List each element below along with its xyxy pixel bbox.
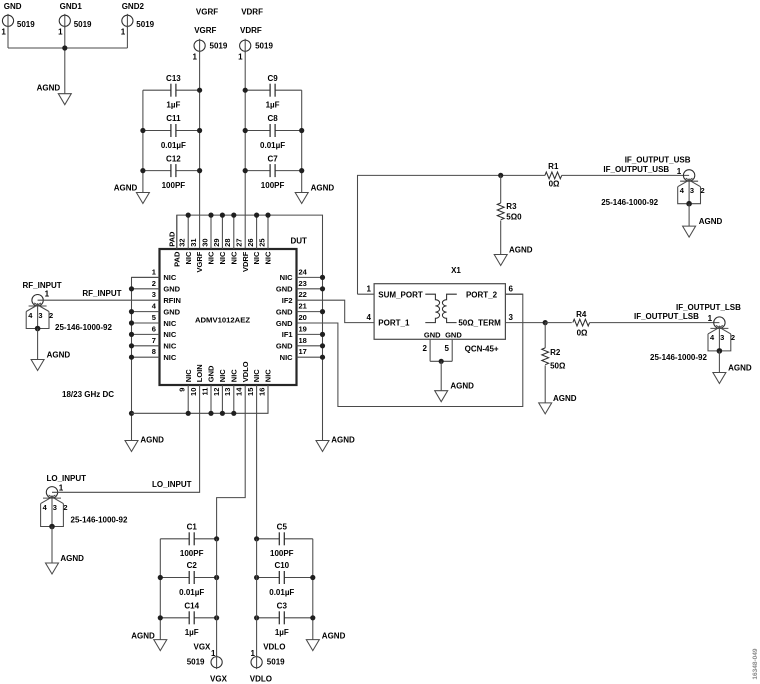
svg-text:NIC: NIC: [280, 273, 294, 282]
svg-text:GND: GND: [207, 365, 216, 382]
X1 GND pins 2 and 5: [423, 339, 453, 361]
svg-text:R4: R4: [576, 310, 587, 319]
capacitor C13: [143, 74, 200, 110]
svg-text:1µF: 1µF: [266, 101, 280, 110]
connector GND1 (turret 5019): [58, 2, 92, 37]
svg-text:AGND: AGND: [553, 394, 577, 403]
svg-text:NIC: NIC: [280, 353, 294, 362]
svg-text:23: 23: [299, 279, 307, 288]
svg-text:AGND: AGND: [322, 632, 346, 641]
svg-text:PORT_2: PORT_2: [466, 290, 498, 299]
svg-text:15: 15: [246, 388, 255, 396]
svg-text:2: 2: [701, 186, 705, 195]
svg-text:C10: C10: [274, 561, 289, 570]
svg-text:NIC: NIC: [252, 251, 261, 265]
junction: [214, 575, 219, 580]
svg-text:NIC: NIC: [218, 251, 227, 265]
svg-text:ADMV1012AEZ: ADMV1012AEZ: [195, 316, 250, 325]
svg-text:7: 7: [152, 336, 156, 345]
wire VDRF vertical to pin 27: [244, 51, 246, 249]
junction bottom bus: [186, 411, 191, 416]
svg-text:RF_INPUT: RF_INPUT: [82, 289, 121, 298]
ground AGND (VDRF bank): [295, 183, 334, 203]
svg-text:SUM_PORT: SUM_PORT: [378, 290, 423, 299]
svg-text:21: 21: [299, 302, 307, 311]
svg-text:NIC: NIC: [207, 251, 216, 265]
svg-text:1: 1: [193, 53, 198, 62]
svg-text:22: 22: [299, 290, 307, 299]
wire LOIN from pin 10: [52, 385, 200, 492]
resistor R4 0 ohm: [573, 310, 590, 337]
wire pin 14 VDLO to VGX bank: [217, 385, 246, 539]
svg-text:6: 6: [509, 284, 514, 293]
junction top bus: [186, 213, 191, 218]
svg-text:PORT_1: PORT_1: [378, 319, 410, 328]
junction: [243, 128, 248, 133]
svg-text:C13: C13: [166, 74, 181, 83]
junction top bus: [254, 213, 259, 218]
junction: [140, 128, 145, 133]
svg-text:AGND: AGND: [509, 245, 533, 254]
wire GND/GND1/GND2 join: [8, 26, 127, 94]
ground AGND (left bus): [125, 436, 164, 452]
svg-text:3: 3: [53, 503, 57, 512]
capacitor C9: [245, 74, 302, 110]
wire RFIN: [38, 299, 160, 301]
junction: [243, 88, 248, 93]
junction: [254, 615, 259, 620]
svg-text:13: 13: [223, 388, 232, 396]
capacitor C5: [257, 523, 313, 559]
wire VGRF bank left rail: [142, 90, 144, 192]
svg-text:VGRF: VGRF: [195, 251, 204, 272]
wire VGRF vertical to pin 31: [199, 51, 201, 249]
svg-text:VDRF: VDRF: [241, 7, 263, 16]
connector VGX (turret 5019): [187, 642, 228, 683]
svg-text:AGND: AGND: [114, 183, 138, 192]
svg-text:C9: C9: [267, 74, 278, 83]
svg-text:27: 27: [235, 238, 244, 246]
svg-text:28: 28: [223, 238, 232, 246]
svg-text:IF_OUTPUT_LSB: IF_OUTPUT_LSB: [676, 303, 741, 312]
svg-text:NIC: NIC: [264, 369, 273, 383]
svg-text:VDLO: VDLO: [241, 361, 250, 382]
svg-text:1: 1: [238, 53, 243, 62]
junction: [310, 615, 315, 620]
IC top pin numbers and names: [168, 231, 273, 273]
svg-text:100PF: 100PF: [261, 181, 285, 190]
junction: [214, 615, 219, 620]
svg-text:0.01µF: 0.01µF: [179, 588, 204, 597]
svg-text:GND: GND: [424, 331, 441, 340]
svg-text:GND: GND: [163, 285, 180, 294]
wire IF2 (pin 22) to X1 PORT_1: [297, 300, 375, 322]
wire R1 to IF_OUTPUT_USB: [562, 174, 689, 176]
svg-text:NIC: NIC: [252, 369, 261, 383]
connector VDRF (turret 5019): [238, 26, 273, 62]
resistor R1 0 ohm: [545, 162, 562, 189]
svg-text:5019: 5019: [74, 20, 92, 29]
svg-text:GND: GND: [4, 2, 22, 11]
svg-text:R2: R2: [550, 348, 561, 357]
junction R3 tap: [498, 173, 503, 178]
capacitor C12: [143, 154, 200, 190]
svg-text:X1: X1: [451, 266, 461, 275]
svg-text:25: 25: [257, 238, 266, 246]
capacitor C10: [257, 561, 313, 597]
svg-text:16348-049: 16348-049: [752, 648, 759, 679]
svg-text:0.01µF: 0.01µF: [161, 141, 186, 150]
svg-text:4: 4: [367, 313, 372, 322]
transformer X1 QCN-45+: [367, 266, 514, 354]
svg-text:AGND: AGND: [37, 83, 61, 92]
svg-text:NIC: NIC: [229, 369, 238, 383]
svg-text:QCN-45+: QCN-45+: [465, 345, 499, 354]
svg-text:AGND: AGND: [450, 382, 474, 391]
svg-text:GND: GND: [276, 285, 293, 294]
svg-text:LOIN: LOIN: [195, 364, 204, 382]
wire VGX bank right rail to connector: [216, 539, 218, 657]
svg-text:3: 3: [690, 186, 694, 195]
connector IF_OUTPUT_LSB 25-146-1000-92: [650, 303, 741, 362]
svg-text:5: 5: [152, 313, 156, 322]
svg-text:9: 9: [178, 388, 187, 392]
wire junction to R4: [545, 322, 572, 324]
capacitor C2: [160, 561, 216, 597]
svg-text:AGND: AGND: [311, 183, 335, 192]
junction: [197, 128, 202, 133]
svg-text:NIC: NIC: [163, 353, 177, 362]
svg-text:18/23 GHz DC: 18/23 GHz DC: [62, 390, 114, 399]
wire R2 to ground: [544, 365, 546, 403]
wire VDLO bank right rail: [312, 539, 314, 640]
svg-text:1: 1: [152, 267, 156, 276]
svg-text:3: 3: [152, 290, 156, 299]
wire bottom ground bus: [132, 385, 269, 413]
svg-text:GND: GND: [276, 319, 293, 328]
svg-text:AGND: AGND: [728, 363, 752, 372]
capacitor C14: [160, 602, 216, 638]
svg-text:C7: C7: [267, 154, 278, 163]
svg-text:VGX: VGX: [210, 675, 228, 684]
svg-text:25-146-1000-92: 25-146-1000-92: [601, 198, 658, 207]
svg-text:IF_OUTPUT_LSB: IF_OUTPUT_LSB: [634, 312, 699, 321]
svg-text:20: 20: [299, 313, 307, 322]
svg-text:25-146-1000-92: 25-146-1000-92: [55, 323, 112, 332]
svg-text:25-146-1000-92: 25-146-1000-92: [650, 353, 707, 362]
svg-text:IF2: IF2: [282, 296, 293, 305]
wire R3 to ground: [500, 221, 502, 255]
svg-text:GND: GND: [276, 307, 293, 316]
svg-text:12: 12: [212, 388, 221, 396]
junction: [158, 575, 163, 580]
svg-text:3: 3: [720, 333, 724, 342]
svg-text:0Ω: 0Ω: [577, 328, 588, 337]
svg-text:50Ω: 50Ω: [550, 362, 566, 371]
wire SUM_PORT to R1: [358, 175, 545, 294]
svg-text:R3: R3: [506, 202, 517, 211]
svg-text:1: 1: [121, 28, 126, 37]
junction X1 ground: [439, 359, 444, 364]
svg-text:VDRF: VDRF: [240, 26, 262, 35]
svg-text:NIC: NIC: [163, 273, 177, 282]
svg-text:AGND: AGND: [60, 554, 84, 563]
svg-text:50Ω_TERM: 50Ω_TERM: [458, 319, 501, 328]
wire top ground bus: [177, 215, 323, 440]
svg-text:3: 3: [509, 313, 514, 322]
junction: [197, 168, 202, 173]
svg-text:1: 1: [677, 167, 682, 176]
svg-text:GND: GND: [445, 331, 462, 340]
svg-text:C1: C1: [187, 523, 198, 532]
svg-text:R1: R1: [548, 162, 559, 171]
svg-text:2: 2: [152, 279, 156, 288]
svg-text:100PF: 100PF: [270, 549, 294, 558]
svg-text:IF_OUTPUT_USB: IF_OUTPUT_USB: [625, 155, 691, 164]
IC bottom pin leads: [188, 385, 268, 413]
svg-text:3: 3: [38, 311, 42, 320]
svg-text:6: 6: [152, 324, 156, 333]
svg-text:AGND: AGND: [699, 217, 723, 226]
svg-text:10: 10: [189, 388, 198, 396]
svg-text:1µF: 1µF: [166, 101, 180, 110]
svg-text:1: 1: [367, 284, 372, 293]
capacitor C7: [245, 154, 302, 190]
connector VGRF (turret 5019): [193, 26, 228, 62]
IC right pin leads: [297, 277, 323, 357]
svg-text:VDLO: VDLO: [250, 675, 272, 684]
svg-text:17: 17: [299, 347, 307, 356]
ground AGND (RF_INPUT): [31, 350, 70, 370]
svg-text:AGND: AGND: [47, 350, 71, 359]
ground AGND (R3): [494, 245, 533, 265]
IC left pin numbers and names: [152, 267, 181, 362]
svg-text:5019: 5019: [187, 657, 205, 666]
junction R2 tap: [543, 320, 548, 325]
svg-text:LO_INPUT: LO_INPUT: [152, 480, 192, 489]
ground AGND (right bus): [316, 436, 355, 452]
svg-text:NIC: NIC: [264, 251, 273, 265]
svg-text:1: 1: [1, 28, 6, 37]
svg-text:5019: 5019: [136, 20, 154, 29]
svg-text:VGRF: VGRF: [194, 26, 216, 35]
svg-text:1µF: 1µF: [185, 628, 199, 637]
svg-text:0Ω: 0Ω: [549, 180, 560, 189]
svg-text:11: 11: [200, 388, 209, 396]
svg-text:18: 18: [299, 336, 307, 345]
svg-text:26: 26: [246, 238, 255, 246]
svg-text:19: 19: [299, 324, 307, 333]
op-amp/IC U1 ADMV1012AEZ (DUT): [160, 237, 308, 385]
junction: [197, 88, 202, 93]
svg-text:C3: C3: [277, 602, 288, 611]
svg-text:100PF: 100PF: [180, 549, 204, 558]
svg-text:NIC: NIC: [184, 369, 193, 383]
junction top bus: [231, 213, 236, 218]
svg-text:GND: GND: [276, 342, 293, 351]
svg-text:1: 1: [708, 314, 713, 323]
junction: [140, 168, 145, 173]
junction top bus: [265, 213, 270, 218]
X1 pin 1 lead: [358, 293, 375, 295]
svg-text:VDLO: VDLO: [263, 642, 285, 651]
resistor R2 50 ohm: [542, 323, 566, 371]
ground AGND (IF_OUTPUT_LSB): [713, 363, 752, 383]
svg-text:AGND: AGND: [331, 436, 355, 445]
junction: [254, 575, 259, 580]
junction: [243, 168, 248, 173]
capacitor C1: [160, 523, 216, 559]
svg-text:C8: C8: [267, 114, 278, 123]
junction: [158, 615, 163, 620]
svg-text:VGX: VGX: [193, 642, 211, 651]
ground AGND (VGRF bank): [114, 183, 150, 203]
svg-text:NIC: NIC: [163, 330, 177, 339]
wire R4 to IF_OUTPUT_LSB: [590, 322, 720, 324]
IC left pin leads: [132, 277, 160, 357]
svg-text:1µF: 1µF: [275, 628, 289, 637]
svg-text:NIC: NIC: [229, 251, 238, 265]
svg-text:PAD: PAD: [168, 231, 177, 247]
svg-text:GND2: GND2: [122, 2, 145, 11]
svg-text:31: 31: [189, 238, 198, 246]
connector LO_INPUT 25-146-1000-92: [41, 474, 128, 529]
connector GND (turret 5019): [1, 2, 35, 37]
svg-text:VDRF: VDRF: [241, 251, 250, 272]
connector VDLO (turret 5019): [250, 642, 286, 683]
svg-text:5Ω0: 5Ω0: [506, 213, 522, 222]
svg-text:14: 14: [235, 387, 244, 396]
junction GND net: [62, 45, 67, 50]
svg-text:2: 2: [49, 311, 53, 320]
svg-text:IF_OUTPUT_USB: IF_OUTPUT_USB: [603, 165, 669, 174]
ground AGND (R2): [539, 394, 577, 414]
junction top bus: [208, 213, 213, 218]
svg-text:NIC: NIC: [218, 369, 227, 383]
svg-text:C12: C12: [166, 154, 181, 163]
svg-text:1: 1: [58, 28, 63, 37]
svg-text:5019: 5019: [17, 20, 35, 29]
svg-text:0.01µF: 0.01µF: [269, 588, 294, 597]
wire LO connector shield to ground: [51, 527, 53, 564]
junction: [299, 168, 304, 173]
svg-text:RF_INPUT: RF_INPUT: [23, 281, 62, 290]
junction: [310, 575, 315, 580]
svg-text:2: 2: [423, 344, 428, 353]
svg-text:5019: 5019: [255, 42, 273, 51]
svg-text:5019: 5019: [210, 42, 228, 51]
svg-text:32: 32: [178, 238, 187, 246]
IC top pin leads: [177, 215, 268, 249]
svg-text:DUT: DUT: [291, 237, 308, 246]
svg-text:24: 24: [299, 267, 308, 276]
svg-text:C14: C14: [184, 602, 199, 611]
ground AGND (IF_OUTPUT_USB): [683, 217, 723, 237]
junction top bus: [220, 213, 225, 218]
transformer X1 primary winding: [425, 294, 439, 322]
junction bottom bus: [220, 411, 225, 416]
svg-text:NIC: NIC: [163, 342, 177, 351]
svg-text:RFIN: RFIN: [163, 296, 181, 305]
connector IF_OUTPUT_USB 25-146-1000-92: [601, 155, 704, 207]
capacitor C11: [143, 114, 200, 150]
svg-text:AGND: AGND: [131, 632, 155, 641]
ground AGND (VDLO bank): [306, 632, 345, 651]
resistor R3 5 ohm 0: [497, 175, 522, 221]
svg-text:PAD: PAD: [172, 251, 181, 267]
svg-text:1: 1: [45, 290, 50, 299]
IC bottom pin numbers and names: [178, 361, 273, 396]
junction left bus: [129, 286, 134, 416]
svg-text:GND: GND: [163, 307, 180, 316]
wire pin 15 to VDLO bank: [256, 385, 258, 539]
transformer X1 secondary winding: [442, 294, 456, 322]
svg-text:25-146-1000-92: 25-146-1000-92: [71, 516, 128, 525]
ground AGND (LO_INPUT): [46, 554, 85, 574]
connector GND2 (turret 5019): [121, 2, 155, 37]
X1 pin 3 lead: [505, 322, 545, 324]
wire PORT_2 to IC pin 20 (GND): [297, 294, 523, 406]
svg-text:2: 2: [63, 503, 67, 512]
svg-text:NIC: NIC: [184, 251, 193, 265]
ground AGND (GND turrets): [37, 83, 72, 104]
svg-text:C2: C2: [187, 561, 198, 570]
svg-text:C11: C11: [166, 114, 181, 123]
X1 pin 6 lead: [505, 293, 522, 295]
IC right pin numbers and names: [276, 267, 308, 362]
svg-text:30: 30: [200, 238, 209, 246]
svg-text:IF1: IF1: [282, 330, 293, 339]
junction: [214, 536, 219, 541]
svg-text:100PF: 100PF: [162, 181, 186, 190]
ground AGND (X1): [435, 382, 474, 402]
svg-text:C5: C5: [277, 523, 288, 532]
wire VDRF bank right rail: [301, 90, 303, 192]
wire USB connector shield to ground: [688, 204, 690, 226]
svg-text:1: 1: [59, 484, 64, 493]
connector RF_INPUT 25-146-1000-92: [23, 281, 113, 332]
svg-text:16: 16: [257, 388, 266, 396]
svg-text:2: 2: [731, 333, 735, 342]
svg-text:AGND: AGND: [140, 436, 164, 445]
wire VGX bank left rail: [159, 539, 161, 640]
wire LSB connector shield to ground: [718, 351, 720, 373]
svg-text:29: 29: [212, 238, 221, 246]
svg-text:NIC: NIC: [163, 319, 177, 328]
junction right bus: [320, 275, 325, 360]
svg-text:8: 8: [152, 347, 156, 356]
svg-text:LO_INPUT: LO_INPUT: [47, 474, 87, 483]
capacitor C3: [257, 602, 313, 638]
svg-text:GND1: GND1: [60, 2, 83, 11]
junction: [254, 536, 259, 541]
wire VDLO bank left rail to connector: [256, 539, 258, 657]
capacitor C8: [245, 114, 302, 150]
ground AGND (VGX bank): [131, 632, 167, 651]
junction bottom bus: [208, 411, 213, 416]
wire RF connector shield to ground: [37, 329, 39, 360]
wire left ground bus: [132, 277, 160, 440]
svg-text:VGRF: VGRF: [196, 7, 218, 16]
svg-text:5: 5: [445, 344, 450, 353]
svg-text:5019: 5019: [267, 657, 285, 666]
svg-text:0.01µF: 0.01µF: [260, 141, 285, 150]
junction: [299, 128, 304, 133]
junction bottom bus: [231, 411, 236, 416]
wire X1 ground: [440, 361, 442, 390]
